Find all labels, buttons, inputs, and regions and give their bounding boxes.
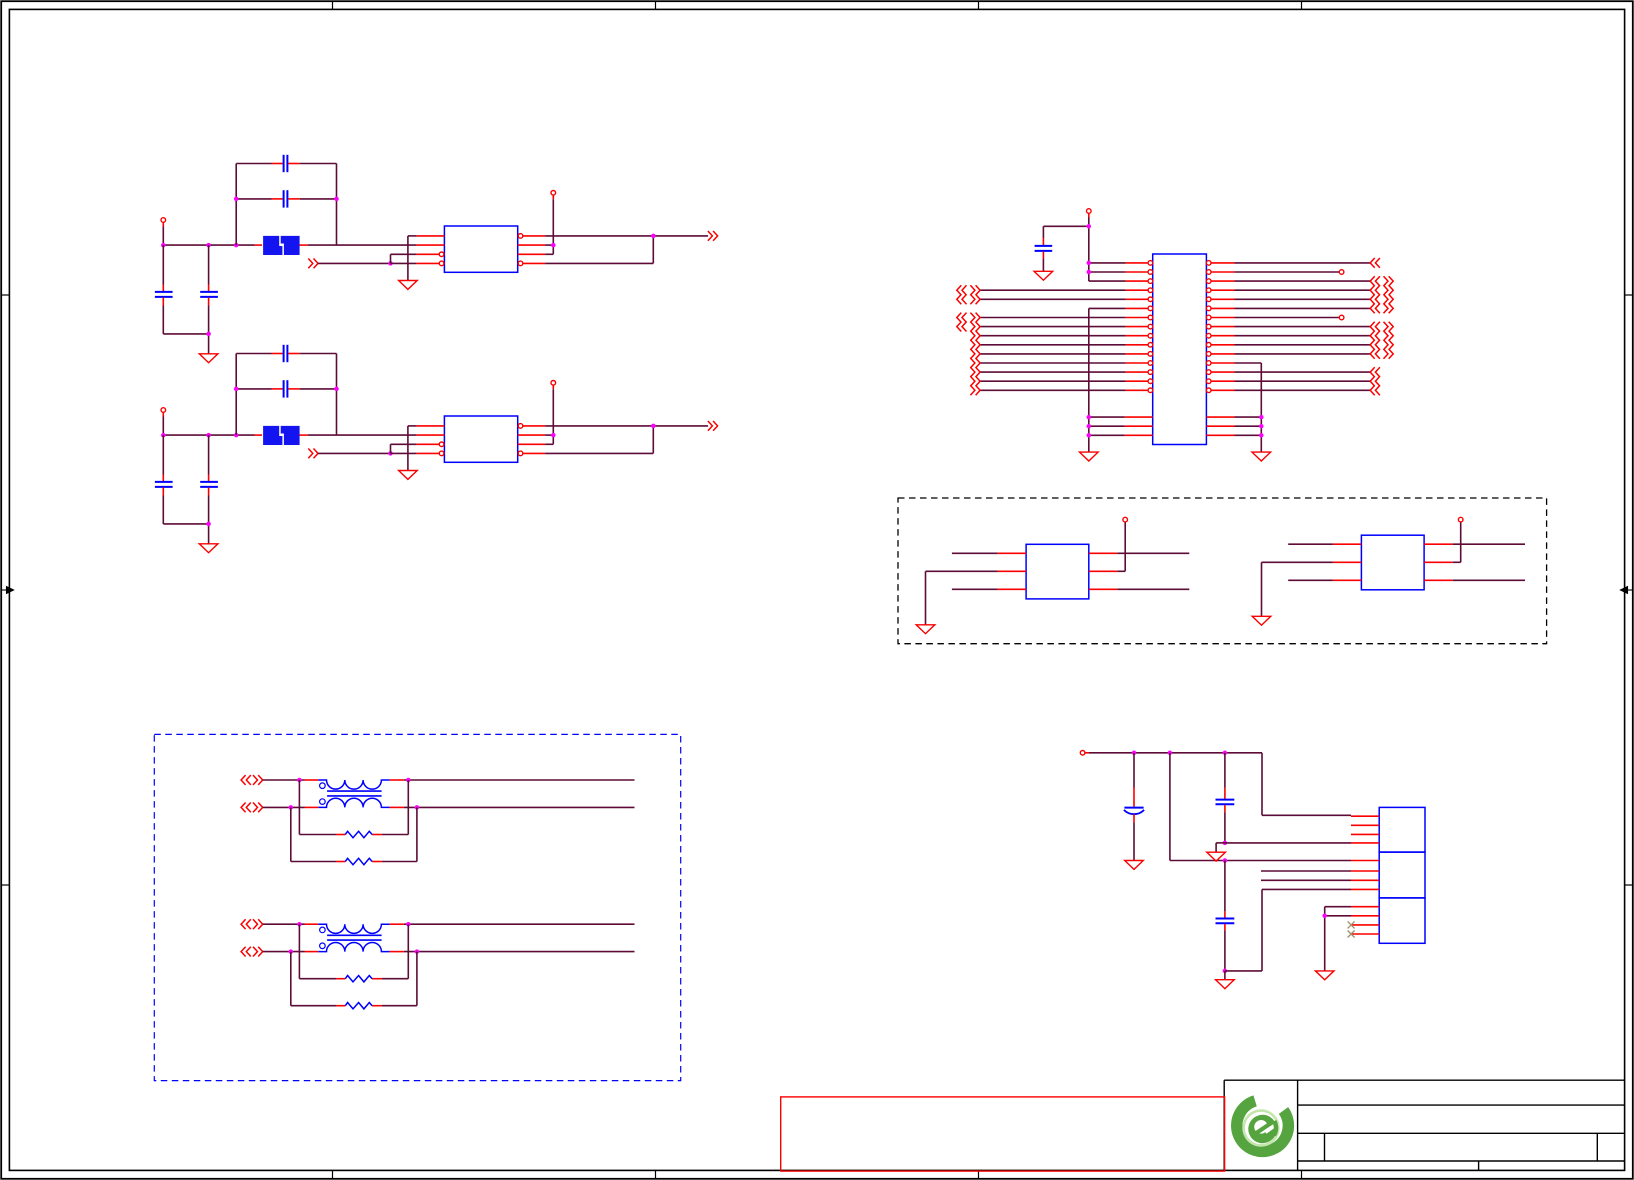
wire input A xyxy=(318,262,391,264)
wire input branch xyxy=(391,254,417,263)
wire row6 stub xyxy=(1261,870,1351,872)
port >> input B xyxy=(308,449,318,459)
junction xyxy=(1087,261,1092,266)
wire T1 in P xyxy=(263,779,305,781)
junction xyxy=(297,778,302,783)
junction xyxy=(1322,914,1327,919)
wire supply rail xyxy=(1089,753,1351,816)
U2 pin 3 xyxy=(417,442,444,447)
U1 pin 6 xyxy=(518,253,545,255)
wire R11 xyxy=(1235,353,1371,355)
wire R10 xyxy=(1235,344,1371,346)
port pair L7 xyxy=(957,313,980,323)
power pin P1 xyxy=(161,218,166,227)
J1 pin 7 xyxy=(1351,879,1379,881)
U5 pin GR2 xyxy=(1206,425,1234,427)
U1 pin 7 xyxy=(518,244,545,246)
U4 pin L2 xyxy=(1333,561,1362,563)
U1 pin 5 xyxy=(518,261,545,266)
port pair R4 xyxy=(1370,285,1393,295)
U5 pin R6 xyxy=(1206,306,1234,311)
ground xyxy=(1125,861,1144,870)
wire R5 xyxy=(1235,298,1371,300)
wire row7 stub xyxy=(1261,879,1351,881)
junction xyxy=(651,424,656,429)
wire R7 xyxy=(1235,317,1340,319)
J1 pin 6 xyxy=(1351,870,1379,872)
capacitor C10 (polarized) xyxy=(1124,753,1144,861)
junction xyxy=(1087,433,1092,438)
J1 pin 4 xyxy=(1351,842,1379,844)
U5 pin L11 xyxy=(1126,352,1153,357)
U5 pin R5 xyxy=(1206,297,1234,302)
capacitor C11 xyxy=(1216,753,1235,843)
power pin P2 xyxy=(551,191,556,200)
power pin P3 xyxy=(161,408,166,417)
junction xyxy=(206,243,211,248)
U1 pin 2 xyxy=(417,244,445,246)
wire riser right xyxy=(336,164,338,246)
U5 pin R14 xyxy=(1206,379,1234,384)
U5 pin L1 xyxy=(1126,261,1153,266)
J1 pin 5 xyxy=(1351,860,1379,862)
wire L10 xyxy=(980,344,1126,346)
U4 pin R1 xyxy=(1424,543,1453,545)
wire U3 L1 xyxy=(952,552,998,554)
J1 pin 11 xyxy=(1351,924,1379,926)
wire U3 L2 to ground xyxy=(926,571,998,625)
junction xyxy=(1132,751,1137,756)
U2 pin 8 xyxy=(518,424,545,429)
J1 pin 12 xyxy=(1351,933,1379,935)
wire L7 xyxy=(980,317,1126,319)
junction xyxy=(1087,270,1092,275)
junction xyxy=(289,949,294,954)
IC U1 xyxy=(444,226,517,272)
U5 pin L5 xyxy=(1126,297,1153,302)
junction xyxy=(206,522,211,527)
U2 pin 2 xyxy=(417,434,445,436)
U5 pin R4 xyxy=(1206,288,1234,293)
U1 pin 3 xyxy=(417,252,444,257)
wire FB1 to U1 xyxy=(308,244,417,246)
IC U2 xyxy=(444,416,517,462)
wire gnd jog xyxy=(1216,843,1225,852)
capacitor C9 (decoupling) xyxy=(1035,226,1053,271)
port pair R10 xyxy=(1370,340,1393,350)
U5 pin GL3 xyxy=(1125,434,1153,436)
wire R6 xyxy=(1235,307,1371,309)
wire U1 pin1 to ground xyxy=(408,236,417,281)
resistor T1_R2 xyxy=(291,807,417,864)
U3 pin L1 xyxy=(998,552,1027,554)
wire to ground xyxy=(1224,971,1226,980)
wire P3 stub xyxy=(162,417,164,436)
U1 pin 8 xyxy=(518,234,545,239)
junction xyxy=(388,261,393,266)
junction xyxy=(334,197,339,202)
junction xyxy=(234,433,239,438)
wire R14 xyxy=(1235,380,1371,382)
port pair L4 xyxy=(957,285,980,295)
junction xyxy=(415,805,420,810)
wire GR2 xyxy=(1235,425,1262,427)
port pair T2_P xyxy=(241,919,263,929)
U5 pin L4 xyxy=(1126,288,1153,293)
power pin xyxy=(1123,517,1128,522)
port R1 xyxy=(1370,258,1380,268)
ground xyxy=(916,625,935,634)
ground xyxy=(1315,971,1334,980)
U5 pin R8 xyxy=(1206,324,1234,329)
dashed group box (blue, bottom left) xyxy=(154,734,680,1080)
capacitor C8 (lower branch) xyxy=(236,380,336,397)
port pair T1_N xyxy=(241,803,263,813)
junction xyxy=(1087,415,1092,420)
U3 pin R2 xyxy=(1089,570,1118,572)
U5 pin L14 xyxy=(1126,379,1153,384)
wire output top xyxy=(545,235,708,237)
U2 pin 7 xyxy=(518,434,545,436)
port pair L5 xyxy=(957,294,980,304)
J1 pin 10 xyxy=(1351,915,1379,917)
junction xyxy=(1259,424,1264,429)
power pin P6 xyxy=(1080,751,1089,756)
wire GL1 xyxy=(1089,416,1125,418)
wire main rail xyxy=(163,244,254,246)
power pin xyxy=(1458,517,1463,522)
U1 pin 4 xyxy=(417,261,444,266)
ground xyxy=(1252,452,1271,461)
wire R1 xyxy=(1235,262,1371,264)
wire output loop xyxy=(545,236,653,264)
sheet note red rectangle xyxy=(781,1097,1225,1171)
wire R12 to ground rail xyxy=(1235,363,1262,452)
pin end R2 xyxy=(1339,270,1344,275)
ground xyxy=(1252,616,1271,625)
wire L8 xyxy=(980,326,1126,328)
U5 pin GR3 xyxy=(1206,434,1234,436)
IC U5 body xyxy=(1153,254,1207,445)
junction xyxy=(161,243,166,248)
wire L11 xyxy=(980,353,1126,355)
wire output loop xyxy=(545,426,653,454)
port L12 xyxy=(970,358,980,368)
U5 pin L12 xyxy=(1126,361,1153,366)
wire T2 out N xyxy=(404,951,635,953)
port >> output A xyxy=(708,231,718,241)
U3 pin R3 xyxy=(1089,588,1118,590)
wire U4 R2 to supply xyxy=(1453,522,1461,563)
U4 pin L3 xyxy=(1333,579,1362,581)
ground xyxy=(399,281,418,290)
junction xyxy=(551,433,556,438)
U4 pin R2 xyxy=(1424,561,1453,563)
port R13 xyxy=(1370,367,1380,377)
junction xyxy=(1223,969,1228,974)
wire T1 out P xyxy=(404,779,635,781)
ground xyxy=(199,544,218,553)
wire riser left xyxy=(235,164,237,246)
wire P2 to pins xyxy=(545,199,553,254)
no-connect flag pin12 xyxy=(1348,931,1355,938)
wire U4 L3 xyxy=(1288,579,1333,581)
U1 pin 1 xyxy=(417,235,445,237)
wire FB2 to U2 xyxy=(308,434,417,436)
U5 pin L3 xyxy=(1126,279,1153,284)
U5 pin R2 xyxy=(1206,270,1234,275)
J1 pin 3 xyxy=(1351,833,1379,835)
wire U3 R3 xyxy=(1117,588,1189,590)
U5 pin GL2 xyxy=(1125,425,1153,427)
junction xyxy=(289,805,294,810)
wire T1 out N xyxy=(404,806,635,808)
junction xyxy=(1259,415,1264,420)
port pair R8 xyxy=(1370,322,1393,332)
wire L14 xyxy=(980,380,1126,382)
wire T2 out P xyxy=(404,923,635,925)
wire R9 xyxy=(1235,335,1371,337)
U5 pin R10 xyxy=(1206,343,1234,348)
resistor T2_R1 xyxy=(299,924,408,982)
wire R4 xyxy=(1235,289,1371,291)
port pair R5 xyxy=(1370,294,1393,304)
port pair R3 xyxy=(1370,276,1393,286)
wire R3 xyxy=(1235,280,1371,282)
junction xyxy=(161,433,166,438)
U5 pin L6 xyxy=(1126,306,1153,311)
junction xyxy=(1259,433,1264,438)
U3 pin L2 xyxy=(998,570,1027,572)
U2 pin 5 xyxy=(518,451,545,456)
capacitor C7 (upper branch) xyxy=(236,345,336,362)
junction xyxy=(1168,751,1173,756)
wire L5 xyxy=(980,298,1126,300)
wire cap commons xyxy=(163,334,208,354)
junction xyxy=(1087,224,1092,229)
wire R2 xyxy=(1235,271,1340,273)
port L9 xyxy=(970,331,980,341)
U5 pin L2 xyxy=(1126,270,1153,275)
junction xyxy=(206,332,211,337)
junction xyxy=(1223,858,1228,863)
wire T1 in N xyxy=(263,806,305,808)
wire L4 xyxy=(980,289,1126,291)
U2 pin 6 xyxy=(518,443,545,445)
wire U4 L1 xyxy=(1288,543,1333,545)
wire row4 feed xyxy=(1225,842,1351,844)
port L14 xyxy=(970,376,980,386)
junction xyxy=(206,433,211,438)
U4 pin R3 xyxy=(1424,579,1453,581)
pin end R7 xyxy=(1339,315,1344,320)
power pin P5 xyxy=(1087,209,1092,218)
wire L2 xyxy=(1089,271,1126,273)
wire output top xyxy=(545,425,708,427)
wire L15 xyxy=(980,389,1126,391)
capacitor C3 (upper branch) xyxy=(236,155,336,172)
wire U3 R1 xyxy=(1117,552,1189,554)
U5 pin R12 xyxy=(1206,361,1234,366)
IC U4 body xyxy=(1361,535,1424,590)
U5 pin L13 xyxy=(1126,370,1153,375)
port R14 xyxy=(1370,376,1380,386)
wire U2 pin1 to ground xyxy=(408,426,417,471)
J1 pin 8 xyxy=(1351,888,1379,890)
U2 pin 4 xyxy=(417,451,444,456)
wire L6 to ground rail xyxy=(1089,308,1126,452)
U5 pin L9 xyxy=(1126,333,1153,338)
wire U4 R1 xyxy=(1453,543,1525,545)
junction xyxy=(1087,424,1092,429)
wire L3 xyxy=(1089,280,1126,282)
junction xyxy=(234,243,239,248)
U5 pin R9 xyxy=(1206,333,1234,338)
resistor T2_R2 xyxy=(291,952,417,1009)
J1 pin 2 xyxy=(1351,824,1379,826)
junction xyxy=(406,922,411,927)
U4 pin L1 xyxy=(1333,543,1362,545)
wire L13 xyxy=(980,371,1126,373)
junction xyxy=(651,234,656,239)
U5 pin GR1 xyxy=(1206,416,1234,418)
wire riser right xyxy=(336,354,338,436)
power pin P4 xyxy=(551,381,556,390)
wire row8 loop xyxy=(1225,889,1351,971)
wire row9-row10 link xyxy=(1325,907,1351,971)
port L10 xyxy=(970,340,980,350)
port pair R6 xyxy=(1370,304,1393,314)
wire U4 R3 xyxy=(1453,579,1525,581)
U5 pin R15 xyxy=(1206,388,1234,393)
ground xyxy=(1080,452,1099,461)
wire GR3 xyxy=(1235,434,1262,436)
U5 pin R1 xyxy=(1206,261,1234,266)
wire input B xyxy=(318,452,391,454)
junction xyxy=(406,778,411,783)
U5 pin L7 xyxy=(1126,315,1153,320)
wire L12 xyxy=(980,362,1126,364)
port >> output B xyxy=(708,421,718,431)
port pair T1_P xyxy=(241,775,263,785)
ferrite bead FB2 xyxy=(255,426,308,445)
wire GL2 xyxy=(1089,425,1125,427)
U5 pin R13 xyxy=(1206,370,1234,375)
junction xyxy=(388,451,393,456)
U3 pin R1 xyxy=(1089,552,1118,554)
wire U3 L3 xyxy=(952,588,998,590)
IC U3 body xyxy=(1026,544,1089,599)
wire U3 R2 to supply xyxy=(1117,522,1125,572)
port L15 xyxy=(970,385,980,395)
wire R13 xyxy=(1235,371,1371,373)
wire riser left xyxy=(235,354,237,436)
U5 pin R7 xyxy=(1206,315,1234,320)
wire R15 xyxy=(1235,389,1371,391)
port pair T2_N xyxy=(241,947,263,957)
U5 pin L8 xyxy=(1126,324,1153,329)
ground xyxy=(399,471,418,480)
wire input branch xyxy=(391,444,417,453)
transformer T2 xyxy=(305,924,404,951)
resistor T1_R1 xyxy=(299,780,408,838)
connector J1 body xyxy=(1379,807,1425,943)
wire P4 to pins xyxy=(545,389,553,444)
port R15 xyxy=(1370,385,1380,395)
U5 pin GL1 xyxy=(1125,416,1153,418)
ground xyxy=(199,354,218,363)
U5 pin R11 xyxy=(1206,352,1234,357)
junction xyxy=(1223,841,1228,846)
capacitor C5 xyxy=(155,435,173,524)
junction xyxy=(415,949,420,954)
port pair L8 xyxy=(957,322,980,332)
capacitor C1 xyxy=(155,245,173,334)
wire main rail xyxy=(163,434,254,436)
junction xyxy=(297,922,302,927)
junction xyxy=(234,387,239,392)
junction xyxy=(334,387,339,392)
U5 pin L10 xyxy=(1126,343,1153,348)
wire P1 stub xyxy=(162,227,164,246)
port pair R9 xyxy=(1370,331,1393,341)
wire cap commons xyxy=(163,524,208,544)
J1 pin 1 xyxy=(1351,815,1379,817)
wire GR1 xyxy=(1235,416,1262,418)
capacitor C2 xyxy=(200,245,218,334)
wire branch mid xyxy=(1170,753,1351,861)
wire R8 xyxy=(1235,326,1371,328)
U2 pin 1 xyxy=(417,425,445,427)
ground xyxy=(1207,852,1226,861)
no-connect flag pin11 xyxy=(1348,921,1355,928)
junction xyxy=(551,243,556,248)
wire L9 xyxy=(980,335,1126,337)
wire L1 xyxy=(1089,262,1126,264)
junction xyxy=(1223,751,1228,756)
ground xyxy=(1034,271,1053,280)
U5 pin R3 xyxy=(1206,279,1234,284)
port L11 xyxy=(970,349,980,359)
ground xyxy=(1216,980,1235,989)
U5 pin L15 xyxy=(1126,388,1153,393)
ferrite bead FB1 xyxy=(255,236,308,255)
junction xyxy=(234,197,239,202)
transformer T1 xyxy=(305,780,404,807)
capacitor C6 xyxy=(200,435,218,524)
U3 pin L3 xyxy=(998,588,1027,590)
title block (decorative) xyxy=(1224,1080,1624,1170)
wire U4 L2 to ground xyxy=(1262,562,1333,616)
wire GL3 xyxy=(1089,434,1125,436)
wire P5 feed xyxy=(1043,218,1088,282)
dashed group box (black, middle right) xyxy=(898,498,1547,644)
port >> input A xyxy=(308,259,318,269)
wire T2 in P xyxy=(263,923,305,925)
port L13 xyxy=(970,367,980,377)
wire T2 in N xyxy=(263,951,305,953)
capacitor C12 xyxy=(1216,861,1235,971)
port pair R11 xyxy=(1370,349,1393,359)
capacitor C4 (lower branch) xyxy=(236,190,336,207)
logo (decorative) xyxy=(1237,1101,1289,1151)
J1 pin 9 xyxy=(1351,906,1379,908)
